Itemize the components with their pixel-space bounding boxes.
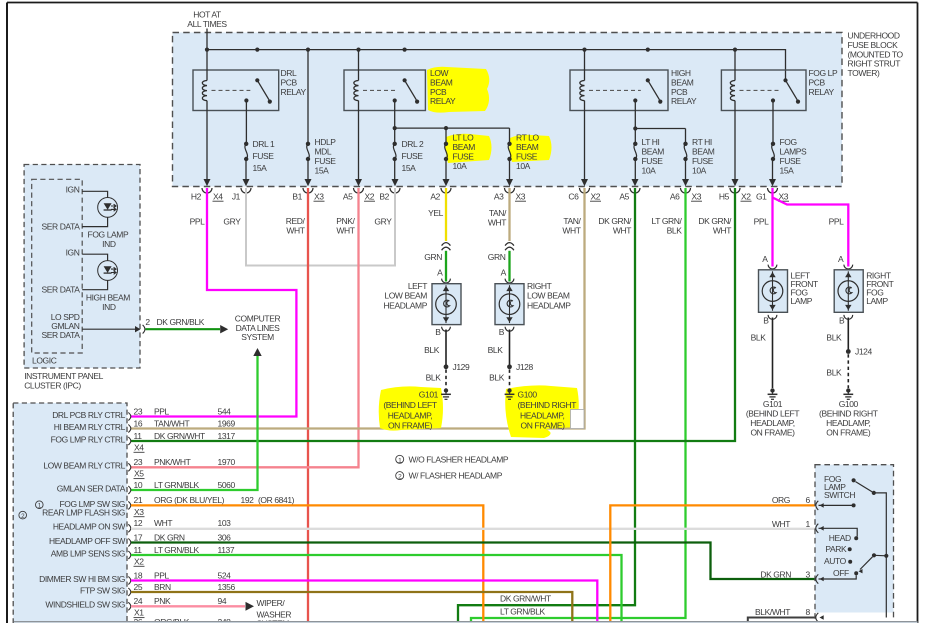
svg-text:IGN: IGN [66, 248, 80, 258]
svg-text:DRL PCB RLY CTRL: DRL PCB RLY CTRL [52, 410, 125, 420]
note 1: W/O FLASHER HEADLAMP [396, 455, 404, 463]
fuse HDLP MDL 15A [306, 142, 310, 146]
svg-text:BLK: BLK [488, 345, 504, 355]
svg-text:DK GRN/WHT: DK GRN/WHT [500, 594, 551, 604]
underhood fuse block (dashed box) [173, 33, 843, 187]
svg-text:J1: J1 [232, 191, 241, 201]
svg-text:C6: C6 [568, 191, 579, 201]
svg-text:RT HI: RT HI [692, 137, 712, 147]
svg-text:GRN: GRN [488, 252, 506, 262]
svg-text:WHT: WHT [713, 226, 731, 236]
svg-text:10A: 10A [692, 166, 707, 176]
svg-text:WHT: WHT [488, 218, 506, 228]
svg-text:BLK: BLK [489, 372, 505, 382]
svg-text:FUSE: FUSE [692, 156, 714, 166]
svg-text:PPL: PPL [190, 217, 206, 227]
svg-text:WHT: WHT [286, 226, 304, 236]
svg-text:LT LO: LT LO [453, 133, 475, 143]
svg-text:LT HI: LT HI [642, 137, 660, 147]
wire DK GRN/BLK to computer data lines [146, 328, 221, 330]
pin 8 interior connector [816, 613, 819, 622]
svg-text:24: 24 [134, 596, 143, 606]
body control module connector dashed box [13, 403, 127, 623]
ground G100 (right headlamp) [507, 388, 511, 392]
note 2: W/ FLASHER HEADLAMP [396, 472, 404, 480]
svg-text:BEAM: BEAM [453, 142, 476, 152]
svg-text:HEADLAMP OFF SW: HEADLAMP OFF SW [49, 536, 125, 546]
svg-text:PPL: PPL [754, 217, 770, 227]
svg-text:X4: X4 [134, 442, 144, 452]
svg-text:10A: 10A [453, 161, 468, 171]
svg-text:SER DATA: SER DATA [41, 330, 80, 340]
svg-text:1356: 1356 [218, 582, 236, 592]
svg-text:15A: 15A [402, 163, 417, 173]
small white patch artifact [571, 410, 585, 429]
connector exit A2 [443, 179, 450, 186]
svg-text:X4: X4 [213, 191, 223, 201]
svg-text:DK GRN/: DK GRN/ [698, 216, 732, 226]
svg-text:BLK: BLK [826, 367, 842, 377]
svg-text:LEFT: LEFT [408, 281, 427, 291]
connector exit B2 [392, 179, 399, 186]
svg-text:H2: H2 [191, 191, 202, 201]
svg-text:1137: 1137 [218, 545, 235, 555]
svg-text:B: B [839, 315, 845, 325]
wire PPL DIMMER SW HI BM SIG down off-page [131, 581, 597, 622]
wire: bus to HDLP MDL fuse to B1 exit [307, 50, 309, 144]
fuse RT HI BEAM 10A [683, 142, 687, 146]
svg-text:LOW BEAM RLY CTRL: LOW BEAM RLY CTRL [43, 461, 125, 471]
svg-text:HEADLAMP: HEADLAMP [383, 300, 427, 310]
wire: LOW BEAM relay output branch [394, 101, 396, 144]
wire: DRL relay output to DRL 1 fuse to J1 exit [245, 101, 247, 144]
highlight: G101 behind-left-headlamp note [379, 386, 443, 430]
svg-text:FUSE: FUSE [315, 156, 337, 166]
svg-text:DK GRN/: DK GRN/ [598, 216, 632, 226]
svg-text:(BEHIND RIGHT: (BEHIND RIGHT [518, 400, 577, 410]
svg-text:FOG LMP RLY CTRL: FOG LMP RLY CTRL [51, 434, 126, 444]
inline connector chevrons on left low beam feed [442, 243, 451, 246]
wire BLK J129 to G101 (dashed) [445, 370, 447, 389]
junction J124 [846, 349, 851, 354]
fuse DRL 2 15A [393, 142, 397, 146]
svg-text:RELAY: RELAY [809, 87, 835, 97]
svg-text:REAR LMP FLASH SIG: REAR LMP FLASH SIG [42, 508, 125, 518]
inline connector chevrons on right low beam feed [505, 243, 514, 246]
wire BLK right fog lamp to J124 [847, 318, 849, 352]
junction J128 [507, 364, 512, 369]
wire DK GRN/WHT from H5 to FOG LMP RLY CTRL [131, 188, 735, 441]
fuse LT HI BEAM 10A [633, 142, 637, 146]
fuse LT LO BEAM 10A [444, 142, 448, 146]
svg-text:OFF: OFF [833, 568, 849, 578]
relay FOG LP PCB RELAY K4 [721, 70, 806, 111]
wire WHT HEADLAMP ON SW to fog lamp switch pin 1 [131, 528, 816, 530]
svg-text:16: 16 [134, 418, 143, 428]
svg-text:A5: A5 [619, 191, 629, 201]
svg-text:WHT: WHT [154, 518, 172, 528]
svg-text:W/O FLASHER HEADLAMP: W/O FLASHER HEADLAMP [409, 454, 509, 464]
ground G101 (left headlamp) [444, 388, 448, 392]
wire RED/WHT from B1 down off-page [307, 188, 309, 621]
svg-text:HIGH BEAM: HIGH BEAM [86, 293, 130, 303]
svg-text:PNK: PNK [154, 596, 171, 606]
lamp E3: LEFT FRONT FOG LAMP [759, 270, 788, 313]
svg-text:HEADLAMP ON SW: HEADLAMP ON SW [53, 522, 126, 532]
connector exit B1 [305, 179, 312, 186]
svg-text:(BEHIND LEFT: (BEHIND LEFT [746, 408, 799, 418]
svg-text:ORG: ORG [772, 495, 790, 505]
ground G100 (right fog lamp) [846, 388, 850, 392]
svg-text:(OR 6841): (OR 6841) [258, 495, 295, 505]
svg-text:J124: J124 [855, 347, 873, 357]
svg-text:3: 3 [806, 570, 811, 580]
svg-text:GRY: GRY [374, 217, 392, 227]
lamp E1: LEFT LOW BEAM HEADLAMP [432, 284, 461, 325]
svg-text:X3: X3 [134, 507, 144, 517]
wire PNK/WHT from A5 to LOW BEAM RLY CTRL [131, 188, 359, 467]
svg-text:10: 10 [134, 480, 143, 490]
svg-text:AUTO: AUTO [824, 556, 847, 566]
svg-text:PNK/: PNK/ [336, 216, 355, 226]
svg-text:SWITCH: SWITCH [824, 490, 855, 500]
svg-text:544: 544 [218, 406, 232, 416]
svg-text:FOG LAMP: FOG LAMP [88, 230, 129, 240]
switch S2 head/park/auto/off [872, 553, 876, 557]
LOGIC inner dashed box [32, 179, 82, 353]
svg-text:GMLAN SER DATA: GMLAN SER DATA [57, 483, 126, 493]
connector exit A5 [632, 179, 639, 186]
svg-text:DK GRN: DK GRN [760, 570, 791, 580]
wire BLK J124 to G100 (dashed) [847, 354, 849, 388]
svg-text:11: 11 [134, 431, 143, 441]
svg-text:X2: X2 [591, 191, 601, 201]
fuse RT LO BEAM 10A [507, 142, 511, 146]
svg-text:15A: 15A [315, 166, 330, 176]
svg-text:ON FRAME): ON FRAME) [521, 420, 566, 430]
wire: bus to LOW BEAM relay coil to A5 exit [358, 50, 360, 81]
svg-text:X3: X3 [314, 191, 324, 201]
fuse DRL 1 15A [244, 142, 248, 146]
svg-text:ON FRAME): ON FRAME) [750, 427, 795, 437]
svg-text:FUSE: FUSE [402, 151, 424, 161]
connector exit A5 [355, 179, 362, 186]
svg-text:LT GRN/BLK: LT GRN/BLK [154, 545, 200, 555]
switch S1 contacts (fog) [852, 478, 856, 482]
svg-text:G101: G101 [419, 389, 439, 399]
svg-text:(BEHIND RIGHT: (BEHIND RIGHT [819, 408, 878, 418]
svg-text:FUSE: FUSE [642, 156, 664, 166]
svg-text:15A: 15A [780, 166, 795, 176]
svg-text:PPL: PPL [829, 217, 845, 227]
svg-text:RIGHT: RIGHT [527, 281, 552, 291]
wire: bus to FOG relay coil to H5 exit [734, 50, 736, 81]
svg-text:A: A [501, 268, 507, 278]
svg-text:DK GRN/BLK: DK GRN/BLK [157, 317, 205, 327]
common rail [874, 493, 887, 618]
svg-text:LT GRN/BLK: LT GRN/BLK [154, 480, 200, 490]
svg-text:A: A [762, 254, 768, 264]
wire GRN to right low beam headlamp [508, 251, 510, 282]
svg-text:X3: X3 [692, 191, 702, 201]
svg-text:BEAM: BEAM [516, 142, 539, 152]
connector exit A6 [682, 179, 689, 186]
svg-text:J128: J128 [516, 362, 534, 372]
connector exit H5 [732, 179, 739, 186]
wire LT GRN/BLK from A6 down and left off-page [471, 188, 686, 621]
wire ORG from FOG LMP SW SIG down off-page [131, 505, 483, 621]
svg-text:X5: X5 [134, 469, 144, 479]
svg-text:BLK: BLK [667, 226, 683, 236]
svg-text:TAN/: TAN/ [489, 208, 507, 218]
relay LOW BEAM PCB RELAY K2 [344, 70, 425, 111]
svg-text:10A: 10A [642, 166, 657, 176]
ground G101 (left fog lamp) [770, 388, 774, 392]
highlight: RT LO BEAM FUSE label [509, 135, 551, 162]
svg-text:FOG: FOG [780, 137, 797, 147]
svg-text:WHT: WHT [336, 226, 354, 236]
svg-text:21: 21 [134, 495, 143, 505]
svg-text:BLK: BLK [426, 372, 442, 382]
svg-text:FUSE: FUSE [780, 156, 802, 166]
wire PPL from H2 to DRL PCB RLY CTRL [131, 188, 296, 417]
svg-text:5060: 5060 [218, 480, 236, 490]
pin 6 interior wire [819, 504, 854, 506]
page border frame [7, 2, 918, 4]
svg-text:1317: 1317 [218, 431, 236, 441]
svg-text:524: 524 [218, 570, 232, 580]
svg-text:FTP SW SIG: FTP SW SIG [80, 585, 125, 595]
svg-text:HEADLAMP,: HEADLAMP, [826, 418, 870, 428]
svg-text:DK GRN: DK GRN [154, 532, 185, 542]
svg-text:ALL TIMES: ALL TIMES [187, 19, 227, 29]
wire TAN/WHT from C6 to HI BEAM RLY CTRL [131, 188, 585, 429]
svg-text:6: 6 [806, 495, 811, 505]
svg-text:BEAM: BEAM [642, 147, 665, 157]
svg-text:A2: A2 [430, 191, 440, 201]
svg-text:BEAM: BEAM [692, 147, 715, 157]
wire TAN/WHT from A3 [508, 188, 510, 241]
connector exit C6 [581, 179, 588, 186]
svg-text:LAMP: LAMP [866, 296, 888, 306]
fog lamp switch dashed box [815, 465, 894, 613]
svg-text:SER DATA: SER DATA [41, 284, 80, 294]
svg-text:PPL: PPL [154, 406, 170, 416]
svg-text:X2: X2 [134, 556, 144, 566]
svg-text:1: 1 [806, 519, 811, 529]
svg-text:SYSTEM: SYSTEM [241, 332, 274, 342]
wire BLK left fog lamp to G101 [772, 318, 774, 389]
relay DRL PCB RELAY K1 [193, 70, 279, 111]
instrument panel cluster (IPC) dashed box [24, 165, 140, 369]
svg-text:18: 18 [134, 570, 143, 580]
svg-text:PARK: PARK [825, 544, 847, 554]
pin B left headlamp [442, 327, 451, 331]
wire GRN to left low beam headlamp [445, 251, 447, 282]
svg-text:1969: 1969 [218, 418, 236, 428]
connector exit H2 [204, 179, 211, 186]
svg-text:HI BEAM RLY CTRL: HI BEAM RLY CTRL [54, 422, 126, 432]
svg-text:IGN: IGN [66, 185, 80, 195]
svg-text:WHT: WHT [772, 519, 790, 529]
wire: bus to DRL relay coil to H2 exit [206, 50, 208, 81]
svg-text:ON FRAME): ON FRAME) [388, 420, 433, 430]
wire BLK right headlamp to J128 [509, 330, 511, 367]
svg-text:GRY: GRY [223, 217, 241, 227]
svg-text:(BEHIND LEFT: (BEHIND LEFT [383, 400, 436, 410]
svg-text:DK GRN/WHT: DK GRN/WHT [154, 431, 205, 441]
wire LT GRN/BLK AMB LMP SENS SIG down off-page [131, 555, 622, 621]
svg-text:HEAD: HEAD [829, 533, 851, 543]
svg-text:LAMP: LAMP [791, 296, 813, 306]
svg-text:1970: 1970 [218, 457, 236, 467]
svg-text:2: 2 [145, 317, 150, 327]
pin label extras: FOG LMP SW SIG circled 1, REAR LMP FLASH SIG circled 2 [36, 501, 44, 509]
svg-text:306: 306 [218, 532, 232, 542]
svg-text:25: 25 [134, 582, 143, 592]
svg-text:H5: H5 [719, 191, 730, 201]
svg-text:YEL: YEL [428, 208, 444, 218]
svg-text:G101: G101 [763, 399, 783, 409]
svg-text:LT GRN/: LT GRN/ [652, 216, 683, 226]
svg-text:X2: X2 [741, 191, 751, 201]
svg-text:IND: IND [102, 302, 116, 312]
svg-text:23: 23 [134, 457, 143, 467]
svg-text:J129: J129 [453, 362, 471, 372]
svg-text:10A: 10A [516, 161, 531, 171]
svg-text:G1: G1 [756, 191, 767, 201]
svg-text:DRL 1: DRL 1 [253, 139, 275, 149]
svg-text:TAN/WHT: TAN/WHT [154, 418, 189, 428]
wire: bus to HIGH BEAM relay coil to C6 exit [584, 50, 586, 81]
svg-text:TOWER): TOWER) [848, 68, 880, 78]
wire: HIGH BEAM relay output branch [634, 101, 636, 144]
relay HIGH BEAM PCB RELAY K3 [570, 70, 668, 111]
wire BLK/WHT from below to fog lamp switch pin 8 [748, 618, 816, 622]
svg-text:A: A [437, 268, 443, 278]
svg-text:FUSE: FUSE [253, 151, 275, 161]
svg-text:X2: X2 [365, 191, 375, 201]
pin 1 interior wire [819, 528, 858, 536]
svg-text:RELAY: RELAY [430, 96, 456, 106]
wire BLK J128 to G100 (dashed) [509, 370, 511, 389]
svg-text:G100: G100 [839, 399, 859, 409]
svg-text:LT GRN/BLK: LT GRN/BLK [500, 607, 546, 617]
svg-text:BLK: BLK [826, 332, 842, 342]
svg-text:15A: 15A [253, 163, 268, 173]
svg-text:BLK: BLK [751, 332, 767, 342]
svg-text:FUSE: FUSE [453, 152, 475, 162]
svg-text:17: 17 [134, 532, 143, 542]
svg-text:X3: X3 [779, 191, 789, 201]
svg-text:HEADLAMP,: HEADLAMP, [388, 410, 432, 420]
svg-text:HDLP: HDLP [315, 137, 337, 147]
svg-text:ORG (DK BLU/YEL): ORG (DK BLU/YEL) [154, 495, 225, 505]
svg-text:HEADLAMP,: HEADLAMP, [750, 418, 794, 428]
svg-text:LAMPS: LAMPS [780, 147, 808, 157]
svg-text:HEADLAMP,: HEADLAMP, [520, 410, 564, 420]
junction J129 [444, 364, 449, 369]
wire: LT LO fuse to A2 exit [445, 159, 447, 181]
svg-text:RED/: RED/ [286, 216, 306, 226]
lamp E2: RIGHT LOW BEAM HEADLAMP [495, 284, 524, 325]
wire: FOG relay output to FOG LAMPS fuse to G1 exit [772, 101, 774, 144]
svg-text:DRL 2: DRL 2 [402, 139, 424, 149]
svg-text:A6: A6 [670, 191, 680, 201]
svg-text:G100: G100 [518, 389, 538, 399]
svg-text:BLK: BLK [424, 345, 440, 355]
svg-text:FUSE: FUSE [516, 152, 538, 162]
lamp E4: RIGHT FRONT FOG LAMP [834, 270, 863, 313]
svg-text:RELAY: RELAY [671, 96, 697, 106]
svg-text:AMB LMP SENS SIG: AMB LMP SENS SIG [51, 548, 125, 558]
svg-text:B: B [763, 315, 769, 325]
wire: B+ bus inside fuse block [207, 50, 786, 80]
bottom crop: next box top edge [14, 621, 918, 623]
svg-text:8: 8 [806, 607, 811, 617]
wire ORG from fog lamp switch pin 6 down off-page [610, 505, 816, 621]
svg-text:A5: A5 [343, 191, 353, 201]
wire BRN FTP SW SIG down off-page [131, 592, 572, 621]
svg-text:GRN: GRN [424, 252, 442, 262]
connector exit G1 [769, 179, 776, 186]
highlight: G100 behind-right-headlamp note [505, 385, 579, 438]
svg-text:IND: IND [102, 239, 116, 249]
svg-text:WHT: WHT [562, 226, 580, 236]
svg-text:BRN: BRN [154, 582, 171, 592]
svg-text:PPL: PPL [154, 570, 170, 580]
svg-text:BLK/WHT: BLK/WHT [755, 607, 790, 617]
svg-text:WINDSHIELD SW SIG: WINDSHIELD SW SIG [45, 600, 125, 610]
svg-text:B2: B2 [379, 191, 389, 201]
wire GRY loop J1 to B2 [246, 188, 395, 266]
wire PPL from G1 to both front fog lamps [771, 188, 773, 267]
svg-text:11: 11 [134, 545, 143, 555]
svg-text:B: B [435, 327, 441, 337]
connector exit A3 [506, 179, 513, 186]
svg-text:INSTRUMENT PANEL: INSTRUMENT PANEL [24, 371, 103, 381]
wire BLK left headlamp to J129 [445, 330, 447, 367]
svg-text:DIMMER SW HI BM SIG: DIMMER SW HI BM SIG [39, 574, 125, 584]
wire: RT LO fuse to A3 exit [509, 159, 511, 181]
wire DK GRN HEADLAMP OFF SW to fog lamp switch pin 3 [131, 543, 816, 580]
wire LT GRN/BLK computer data lines to GMLAN SER DATA [131, 356, 258, 490]
pin 3 interior wire [819, 575, 857, 579]
svg-text:A3: A3 [494, 191, 504, 201]
svg-text:12: 12 [134, 518, 143, 528]
svg-text:W/ FLASHER HEADLAMP: W/ FLASHER HEADLAMP [409, 471, 503, 481]
svg-text:PNK/WHT: PNK/WHT [154, 457, 191, 467]
svg-text:ON FRAME): ON FRAME) [826, 427, 871, 437]
svg-text:MDL: MDL [315, 147, 332, 157]
highlight: LOW BEAM PCB RELAY label [427, 67, 489, 113]
svg-text:94: 94 [218, 596, 227, 606]
connector exit J1 [243, 179, 250, 186]
svg-text:WIPER/: WIPER/ [257, 598, 286, 608]
svg-text:CLUSTER (IPC): CLUSTER (IPC) [24, 380, 81, 390]
wire DK GRN/WHT from A5 (high beam) down and left off-page [458, 188, 635, 621]
svg-text:RT LO: RT LO [516, 133, 540, 143]
svg-text:LOW BEAM: LOW BEAM [384, 291, 427, 301]
svg-text:WHT: WHT [613, 226, 631, 236]
svg-text:B: B [499, 327, 505, 337]
svg-text:LOW BEAM: LOW BEAM [527, 291, 570, 301]
pin B right headlamp [505, 327, 514, 331]
svg-text:SER DATA: SER DATA [41, 221, 80, 231]
fuse FOG LAMPS 15A [771, 142, 775, 146]
svg-text:23: 23 [134, 406, 143, 416]
wire YEL from A2 [445, 188, 447, 241]
